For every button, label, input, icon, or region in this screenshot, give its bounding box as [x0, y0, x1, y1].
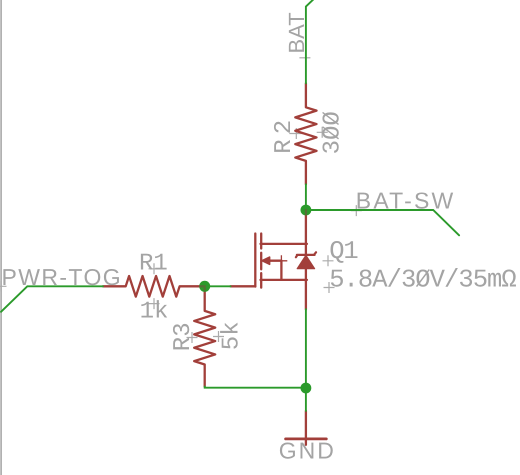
svg-text:GND: GND — [279, 437, 336, 463]
svg-text:3ØØ: 3ØØ — [320, 111, 347, 154]
svg-text:5.8A/3ØV/35mΩ: 5.8A/3ØV/35mΩ — [329, 265, 517, 294]
svg-text:R2: R2 — [271, 120, 298, 154]
svg-text:1k: 1k — [140, 299, 169, 326]
svg-text:Q1: Q1 — [329, 237, 359, 266]
svg-text:R3: R3 — [170, 322, 197, 351]
svg-text:5k: 5k — [218, 321, 245, 350]
svg-text:R1: R1 — [139, 251, 168, 278]
